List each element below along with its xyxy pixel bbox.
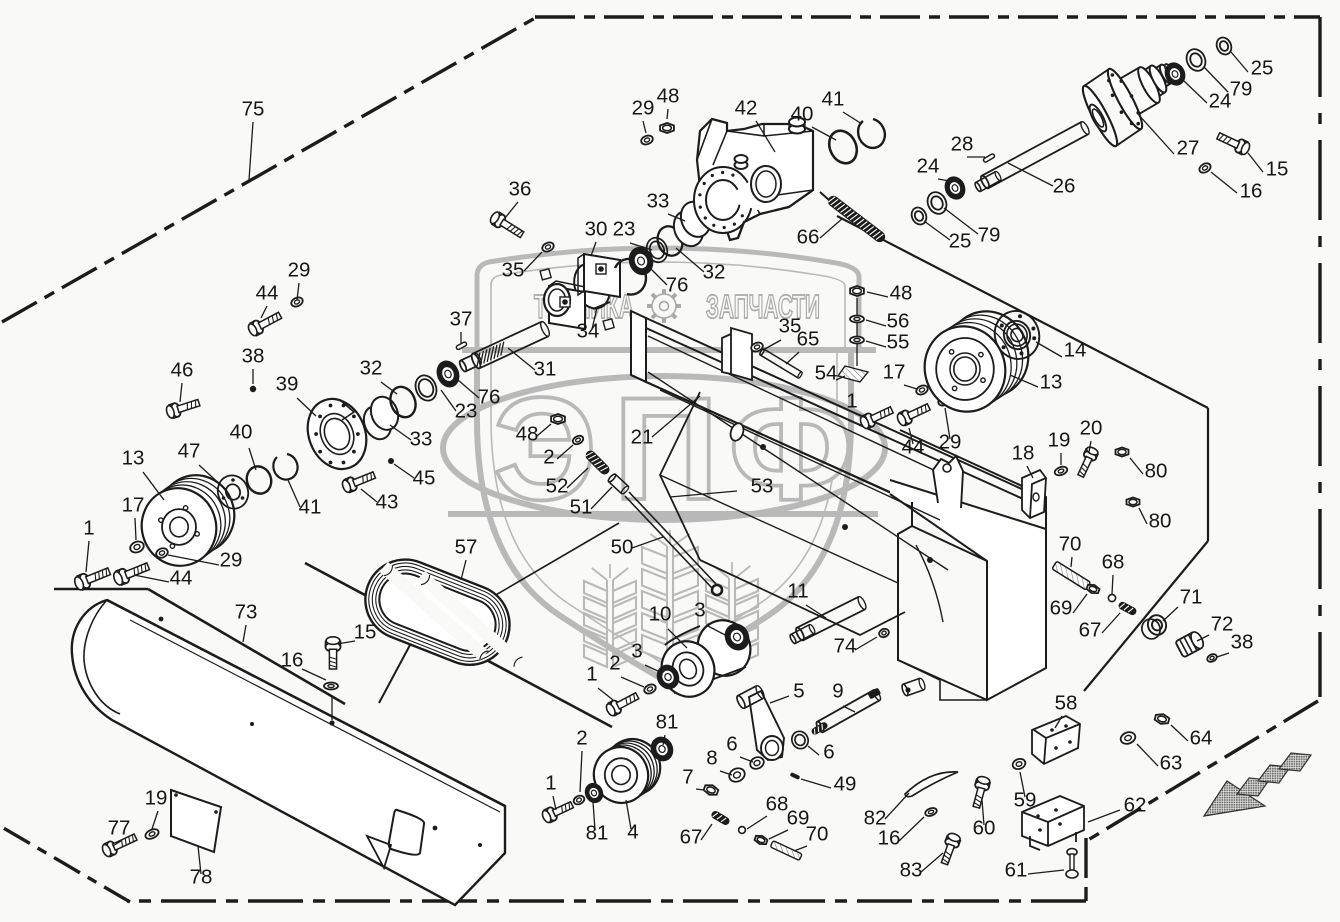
- svg-text:29: 29: [288, 259, 311, 282]
- svg-text:14: 14: [1064, 339, 1087, 362]
- pin 28: [983, 153, 995, 162]
- cover 73: [72, 600, 505, 905]
- svg-text:44: 44: [256, 282, 279, 305]
- bolt 36: [489, 211, 524, 238]
- rod 65: [759, 348, 803, 378]
- svg-text:54: 54: [815, 362, 838, 385]
- svg-text:73: 73: [235, 601, 258, 624]
- svg-text:74: 74: [834, 635, 857, 658]
- svg-text:40: 40: [791, 103, 814, 126]
- bolt 61: [1066, 849, 1078, 879]
- svg-text:48: 48: [890, 282, 913, 305]
- housing 30/34: [540, 254, 620, 330]
- svg-text:80: 80: [1149, 510, 1172, 533]
- svg-text:3: 3: [631, 640, 642, 663]
- washer 16a: [1198, 161, 1213, 174]
- bolt 20: [1078, 446, 1099, 478]
- bearing 3b: [653, 661, 684, 693]
- nut 64: [1154, 712, 1170, 725]
- svg-text:24: 24: [1209, 90, 1232, 113]
- phantom border right-bottom vertical: [1084, 838, 1087, 901]
- svg-text:36: 36: [509, 178, 532, 201]
- svg-text:20: 20: [1080, 417, 1103, 440]
- flange 39: [298, 390, 377, 478]
- svg-text:16: 16: [878, 827, 901, 850]
- svg-text:29: 29: [632, 97, 655, 120]
- svg-text:18: 18: [1012, 442, 1035, 465]
- svg-text:52: 52: [546, 475, 569, 498]
- svg-text:4: 4: [627, 821, 638, 844]
- bearing 76L: [433, 357, 464, 391]
- bracket 58: [1032, 716, 1080, 764]
- svg-text:25: 25: [1251, 57, 1274, 80]
- svg-text:80: 80: [1145, 460, 1168, 483]
- seal 79a: [924, 189, 950, 217]
- svg-text:30: 30: [585, 218, 608, 241]
- ring 32L: [386, 383, 420, 421]
- svg-text:1: 1: [586, 663, 597, 686]
- svg-text:81: 81: [656, 711, 679, 734]
- svg-text:44: 44: [902, 436, 925, 459]
- washer 29T: [640, 134, 654, 146]
- nut 69a: [754, 834, 768, 846]
- svg-text:7: 7: [682, 766, 693, 789]
- rod 50: [625, 492, 716, 588]
- svg-text:27: 27: [1177, 137, 1200, 160]
- svg-text:67: 67: [1079, 619, 1102, 642]
- svg-text:23: 23: [613, 218, 636, 241]
- svg-text:42: 42: [735, 97, 758, 120]
- bearing 81b: [581, 780, 606, 806]
- long thin line: [494, 523, 619, 596]
- washer 6b: [748, 755, 765, 771]
- bearing 3a: [720, 619, 753, 654]
- pulley 4: [598, 731, 668, 802]
- svg-text:57: 57: [455, 536, 478, 559]
- dot 45: [388, 458, 394, 464]
- nut 48T: [660, 123, 674, 133]
- svg-text:41: 41: [299, 496, 322, 519]
- phantom border bottom: [127, 899, 1086, 902]
- svg-text:51: 51: [570, 496, 593, 519]
- step connector: [379, 645, 410, 703]
- bushing 33 top: [667, 197, 718, 250]
- hub 14: [988, 305, 1046, 366]
- svg-text:31: 31: [534, 358, 557, 381]
- seal 79b: [1183, 46, 1209, 74]
- ring 25a: [909, 205, 929, 227]
- svg-text:32: 32: [703, 261, 726, 284]
- clevis bracket on beam: [933, 456, 963, 508]
- svg-text:33: 33: [647, 190, 670, 213]
- svg-text:1: 1: [846, 390, 857, 413]
- pin stud at box bottom: [901, 678, 926, 697]
- oval hole in beam: [728, 421, 745, 442]
- svg-text:49: 49: [834, 773, 857, 796]
- svg-text:68: 68: [766, 793, 789, 816]
- svg-text:15: 15: [1266, 158, 1289, 181]
- hub 47: [213, 471, 253, 513]
- ball 68a: [739, 827, 746, 834]
- svg-text:16: 16: [1240, 180, 1263, 203]
- svg-text:28: 28: [951, 133, 974, 156]
- svg-text:48: 48: [516, 423, 539, 446]
- svg-text:62: 62: [1124, 794, 1147, 817]
- svg-text:16: 16: [281, 649, 304, 672]
- svg-text:64: 64: [1190, 727, 1213, 750]
- bearing 81a: [647, 733, 678, 765]
- svg-text:79: 79: [1230, 78, 1253, 101]
- watermark shield: [443, 248, 885, 680]
- spring 67b: [1117, 600, 1138, 616]
- svg-text:81: 81: [586, 822, 609, 845]
- washer 2a: [643, 683, 657, 696]
- svg-text:11: 11: [787, 580, 808, 603]
- washer 63: [1119, 730, 1137, 746]
- spring 66: [826, 194, 888, 245]
- svg-text:75: 75: [242, 98, 265, 121]
- svg-text:67: 67: [680, 826, 703, 849]
- svg-text:48: 48: [657, 85, 680, 108]
- svg-text:8: 8: [706, 747, 717, 770]
- svg-text:69: 69: [1050, 597, 1073, 620]
- svg-text:13: 13: [1040, 371, 1063, 394]
- svg-text:46: 46: [171, 359, 194, 382]
- phantom border right vertical: [1318, 17, 1321, 697]
- washer 16b: [924, 807, 938, 818]
- dot 38: [250, 386, 256, 392]
- washer 19L: [144, 827, 160, 841]
- washer 17L: [129, 540, 146, 555]
- roller 10: [689, 612, 760, 685]
- svg-text:24: 24: [917, 155, 940, 178]
- svg-text:23: 23: [455, 400, 478, 423]
- washer 19b: [1054, 465, 1069, 477]
- svg-text:32: 32: [360, 357, 383, 380]
- bolt 1L: [73, 568, 111, 591]
- phantom border top: [535, 15, 1320, 18]
- svg-text:6: 6: [823, 741, 834, 764]
- bolt 15L vertical: [326, 637, 341, 669]
- bolt 1a: [605, 693, 639, 717]
- svg-text:63: 63: [1160, 752, 1183, 775]
- pad 54: [838, 366, 868, 382]
- phantom border right diagonal: [1088, 701, 1318, 840]
- svg-text:17: 17: [883, 361, 906, 384]
- svg-text:59: 59: [1014, 789, 1037, 812]
- stud 48/56/55 column: [856, 298, 858, 366]
- svg-text:29: 29: [939, 431, 962, 454]
- nut 80b: [1127, 497, 1140, 506]
- svg-text:13: 13: [122, 447, 145, 470]
- nut 7: [703, 783, 719, 797]
- bolt 44TL: [247, 312, 282, 337]
- pin 70a: [770, 841, 802, 861]
- svg-text:35: 35: [502, 259, 525, 282]
- svg-text:37: 37: [450, 308, 473, 331]
- svg-text:15: 15: [354, 621, 377, 644]
- svg-text:25: 25: [949, 230, 972, 253]
- cover crease: [130, 620, 500, 812]
- bolt 83: [941, 832, 961, 865]
- svg-text:66: 66: [797, 226, 820, 249]
- svg-text:2: 2: [543, 446, 554, 469]
- bolt 43: [341, 472, 376, 494]
- ring 40L: [243, 463, 275, 497]
- svg-text:19: 19: [1048, 429, 1071, 452]
- rings right of housing: [615, 259, 646, 295]
- bracket 62: [1022, 796, 1084, 850]
- vent triangle: [367, 836, 391, 868]
- svg-text:2: 2: [609, 652, 620, 675]
- svg-text:71: 71: [1180, 586, 1203, 609]
- svg-text:47: 47: [178, 440, 201, 463]
- svg-text:43: 43: [376, 491, 399, 514]
- svg-text:17: 17: [122, 494, 145, 517]
- svg-text:44: 44: [170, 567, 193, 590]
- bracket 35/65 on beam: [722, 328, 752, 380]
- cover dots: [159, 617, 164, 622]
- bushing 6a: [789, 729, 811, 752]
- thread hatch on 31: [477, 342, 504, 367]
- svg-text:79: 79: [978, 224, 1001, 247]
- svg-text:9: 9: [832, 680, 843, 703]
- ring 40 top: [824, 126, 862, 168]
- phantom border bottom-left diagonal: [0, 826, 130, 902]
- arm 5: [749, 691, 784, 760]
- washer 2m: [571, 434, 584, 446]
- svg-text:41: 41: [822, 88, 845, 111]
- pin 70b: [1052, 561, 1091, 590]
- bolt 1c: [541, 802, 574, 824]
- svg-text:55: 55: [887, 331, 910, 354]
- shaft 11: [794, 596, 867, 642]
- bearing 24b: [1161, 59, 1189, 89]
- snap ring 41L: [273, 454, 297, 480]
- sleeve 51: [607, 473, 630, 495]
- bolt 44L: [112, 563, 150, 586]
- svg-text:83: 83: [900, 859, 923, 882]
- svg-text:5: 5: [793, 680, 804, 703]
- washer 74: [878, 627, 890, 638]
- washer 2b: [572, 794, 585, 806]
- svg-text:40: 40: [230, 421, 253, 444]
- svg-text:2: 2: [576, 727, 587, 750]
- svg-text:21: 21: [631, 426, 654, 449]
- svg-text:76: 76: [478, 386, 501, 409]
- main beam: [631, 311, 1046, 700]
- svg-text:1: 1: [545, 772, 556, 795]
- rod 9: [815, 689, 882, 734]
- direction arrow: [1204, 781, 1265, 816]
- washer 35a: [541, 241, 555, 254]
- svg-text:70: 70: [806, 823, 829, 846]
- svg-text:61: 61: [1005, 859, 1028, 882]
- svg-text:34: 34: [577, 320, 600, 343]
- svg-text:6: 6: [726, 733, 737, 756]
- nut 69b: [1086, 583, 1100, 595]
- pulley 13 right: [936, 300, 1041, 408]
- pin 49: [790, 772, 801, 780]
- beam dots: [760, 444, 766, 450]
- washer 17b, bolts 1b/44b, washer 29b: [915, 384, 929, 397]
- bolt 46: [165, 399, 200, 419]
- svg-text:38: 38: [1231, 631, 1254, 654]
- shaft 31: [458, 353, 482, 373]
- washer 29TL: [290, 296, 304, 309]
- svg-text:10: 10: [649, 603, 672, 626]
- hub 27 assembly: [1116, 129, 1141, 146]
- plug 72: [1175, 630, 1206, 658]
- svg-text:58: 58: [1055, 692, 1078, 715]
- door 78: [171, 790, 221, 852]
- svg-text:56: 56: [887, 310, 910, 333]
- bolt 77: [101, 834, 137, 858]
- snap 41 top: [858, 119, 885, 148]
- svg-text:53: 53: [751, 475, 774, 498]
- svg-text:3: 3: [694, 599, 705, 622]
- spring 52: [583, 448, 611, 476]
- pin 37: [456, 341, 468, 350]
- belt 57: [353, 548, 541, 685]
- svg-text:ЗАПЧАСТИ: ЗАПЧАСТИ: [706, 288, 820, 325]
- bearing 24a: [941, 173, 969, 203]
- bolt 15a: [1217, 133, 1251, 156]
- svg-text:45: 45: [413, 467, 436, 490]
- ball 68b: [1108, 594, 1115, 601]
- svg-text:77: 77: [108, 817, 131, 840]
- flange nut 71: [1145, 613, 1169, 638]
- washer 29L: [155, 547, 169, 560]
- washer 59: [1011, 757, 1027, 771]
- spring 67a: [710, 810, 731, 827]
- washer 16L: [324, 683, 338, 690]
- bracket 42: [694, 118, 813, 241]
- svg-text:38: 38: [242, 345, 265, 368]
- svg-text:1: 1: [83, 517, 94, 540]
- nut 80a: [1116, 447, 1129, 456]
- bolt 60: [973, 775, 991, 808]
- nut 48m: [551, 414, 565, 424]
- ring 25b: [1214, 35, 1234, 57]
- svg-text:39: 39: [276, 373, 299, 396]
- svg-text:50: 50: [611, 536, 634, 559]
- phantom border top-left diagonal: [2, 18, 535, 322]
- svg-text:76: 76: [666, 274, 689, 297]
- notch on flange: [340, 400, 354, 420]
- svg-text:19: 19: [145, 787, 168, 810]
- svg-text:65: 65: [797, 328, 820, 351]
- machine frame line: [54, 588, 148, 591]
- shaft 26: [979, 121, 1090, 190]
- svg-text:26: 26: [1053, 175, 1076, 198]
- washer 8: [727, 766, 747, 784]
- pulley 13 left: [149, 465, 245, 564]
- svg-text:29: 29: [220, 549, 243, 572]
- ring 23L: [412, 372, 440, 404]
- big panel outline right: [837, 216, 1208, 408]
- blade 82: [905, 772, 958, 797]
- bracket 18: [1022, 470, 1046, 518]
- machine frame diagonal behind cover: [305, 563, 612, 727]
- bushing 33L: [357, 393, 405, 444]
- curve on box face: [916, 545, 943, 622]
- svg-text:33: 33: [410, 428, 433, 451]
- svg-text:70: 70: [1059, 533, 1082, 556]
- washer 38b: [1206, 653, 1218, 664]
- svg-text:68: 68: [1102, 551, 1125, 574]
- door hole right: [389, 810, 424, 855]
